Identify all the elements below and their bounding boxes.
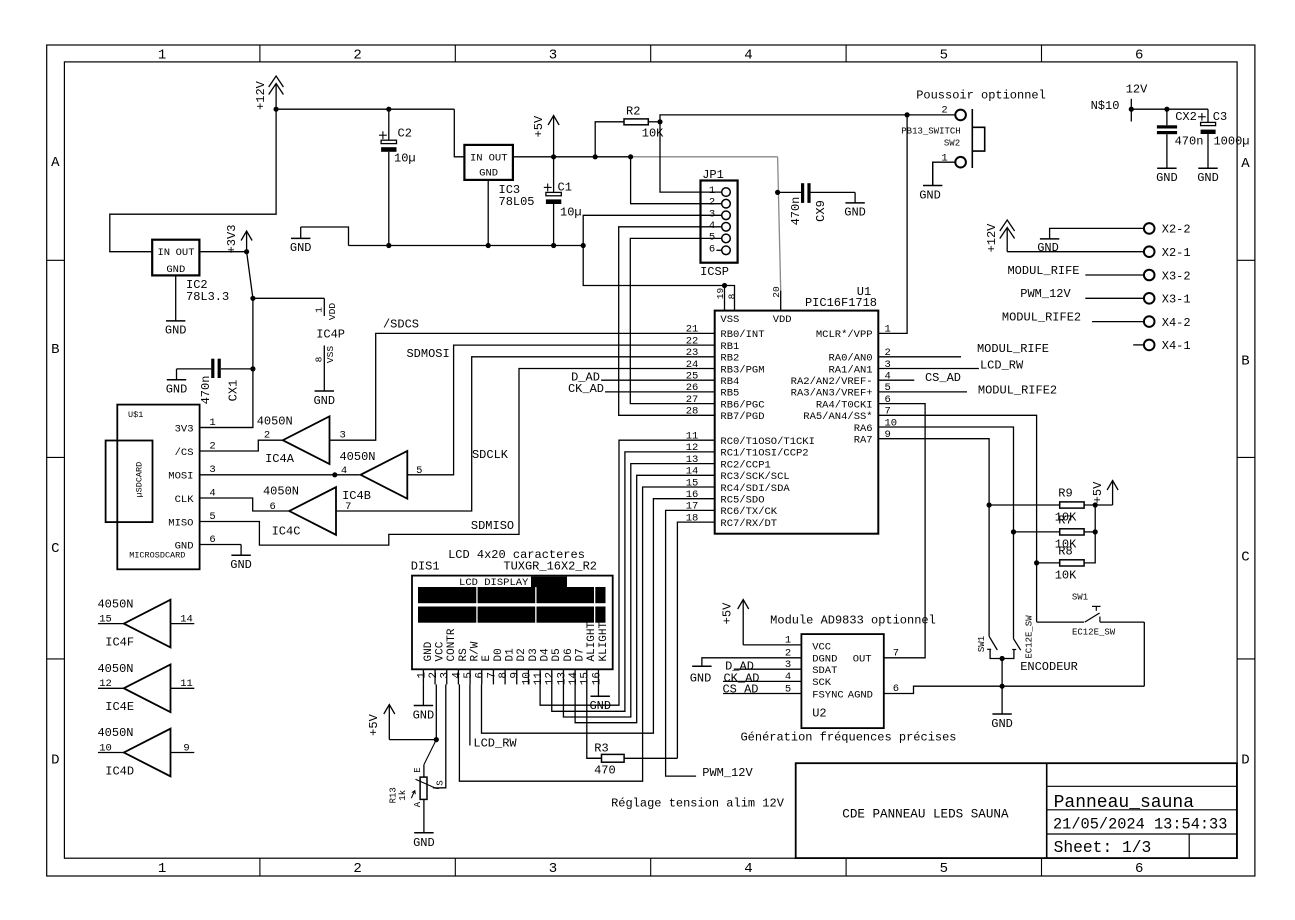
svg-text:10K: 10K bbox=[642, 127, 664, 141]
wire IC3 OUT to +5V rail bbox=[513, 156, 554, 158]
svg-text:D0: D0 bbox=[493, 648, 505, 661]
power symbol +12V (connectors) bbox=[985, 220, 1015, 252]
svg-text:2: 2 bbox=[941, 104, 947, 116]
connector X2-2 bbox=[1144, 223, 1191, 237]
switch SW1 EC12E push bbox=[1037, 592, 1145, 686]
svg-text:3: 3 bbox=[440, 672, 452, 679]
svg-text:X4-1: X4-1 bbox=[1162, 339, 1191, 353]
junction +12V tee bbox=[274, 107, 279, 112]
wire U2 AGND to encoder gnd bbox=[884, 686, 1145, 693]
wire X3-2 bbox=[1085, 274, 1144, 276]
wire X2-1 to +12V bbox=[1007, 251, 1144, 253]
svg-text:1k: 1k bbox=[398, 790, 408, 801]
svg-text:1: 1 bbox=[313, 307, 324, 313]
ground encoder bbox=[991, 686, 1013, 731]
svg-text:470n: 470n bbox=[789, 197, 803, 226]
svg-text:RA2/AN2/VREF-: RA2/AN2/VREF- bbox=[791, 376, 873, 388]
svg-text:D7: D7 bbox=[575, 648, 587, 661]
svg-text:GND: GND bbox=[313, 394, 335, 408]
svg-text:S: S bbox=[435, 780, 445, 785]
wire RC0 to LCD D4 bbox=[540, 440, 715, 705]
wire U$1 MISO to SDMISO bbox=[200, 369, 715, 546]
svg-text:13: 13 bbox=[556, 672, 568, 685]
svg-text:GND: GND bbox=[479, 168, 498, 180]
svg-text:SCK: SCK bbox=[812, 677, 832, 689]
svg-text:D3: D3 bbox=[528, 648, 540, 661]
svg-text:R/W: R/W bbox=[470, 641, 482, 661]
svg-text:ENCODEUR: ENCODEUR bbox=[1020, 660, 1078, 674]
svg-text:A: A bbox=[413, 801, 423, 807]
svg-text:VDD: VDD bbox=[327, 303, 338, 320]
buffer IC4C (4050N) bbox=[263, 485, 351, 539]
svg-text:2: 2 bbox=[353, 861, 361, 877]
label MODUL_RIFE2 (X4-2) bbox=[1002, 311, 1081, 325]
svg-text:MODUL_RIFE2: MODUL_RIFE2 bbox=[978, 384, 1057, 398]
wire RC3 to LCD D7 bbox=[575, 475, 715, 722]
wire R7 left bbox=[1014, 531, 1060, 533]
wire X4-2 bbox=[1092, 321, 1144, 323]
svg-text:B: B bbox=[51, 342, 59, 358]
svg-text:R9: R9 bbox=[1058, 487, 1072, 501]
svg-text:9: 9 bbox=[183, 742, 189, 754]
svg-text:IC4C: IC4C bbox=[272, 524, 301, 538]
regulator IC2 78L3.3 bbox=[152, 240, 229, 304]
mcu U1 RB pin names bbox=[686, 324, 765, 423]
svg-text:6: 6 bbox=[475, 672, 487, 679]
svg-text:RB5: RB5 bbox=[720, 388, 739, 400]
svg-text:PWM_12V: PWM_12V bbox=[1020, 287, 1071, 301]
wire RA3 bbox=[878, 391, 967, 393]
svg-text:PB13_SWITCH: PB13_SWITCH bbox=[901, 126, 960, 136]
junction C1 bottom bbox=[551, 243, 556, 248]
svg-text:LCD_RW: LCD_RW bbox=[980, 359, 1024, 373]
svg-text:RS: RS bbox=[458, 648, 470, 662]
wire +12V down-left to IC2 bbox=[110, 109, 276, 252]
junction +3V3 bbox=[244, 249, 249, 254]
svg-text:MODUL_RIFE: MODUL_RIFE bbox=[977, 342, 1049, 356]
svg-text:D4: D4 bbox=[540, 648, 552, 662]
connector X3-2 bbox=[1144, 269, 1191, 283]
svg-text:+12V: +12V bbox=[254, 80, 268, 110]
resistor R8 10K bbox=[1055, 545, 1084, 583]
ground R13 bbox=[413, 833, 435, 850]
ground LCD pin1 bbox=[413, 706, 435, 723]
svg-text:+12V: +12V bbox=[985, 223, 999, 253]
wire 12V stub bbox=[1130, 99, 1132, 122]
power pins IC4P bbox=[313, 298, 345, 363]
svg-text:20: 20 bbox=[771, 286, 782, 298]
svg-text:AGND: AGND bbox=[848, 689, 873, 701]
svg-text:RA0/AN0: RA0/AN0 bbox=[828, 353, 872, 365]
svg-text:IC4F: IC4F bbox=[105, 635, 134, 649]
svg-text:JP1: JP1 bbox=[702, 168, 724, 182]
svg-text:4050N: 4050N bbox=[97, 597, 133, 611]
label SDMISO bbox=[471, 519, 514, 533]
svg-text:2: 2 bbox=[264, 429, 270, 441]
svg-text:GND: GND bbox=[165, 324, 187, 338]
svg-text:X4-2: X4-2 bbox=[1162, 316, 1191, 330]
svg-text:2: 2 bbox=[428, 672, 440, 679]
ground U2 DGND bbox=[690, 666, 712, 685]
svg-text:12V: 12V bbox=[1126, 82, 1148, 96]
ground CX9 bbox=[844, 192, 866, 219]
svg-text:22: 22 bbox=[686, 335, 699, 347]
wire IC4A in from RB0 (/SDCS) bbox=[330, 333, 715, 440]
wire +12V rail bbox=[276, 108, 454, 110]
title text Panneau_sauna bbox=[1054, 793, 1195, 813]
capacitor C3 bbox=[1198, 109, 1250, 168]
svg-text:9: 9 bbox=[510, 672, 522, 679]
potentiometer R13 1k bbox=[389, 765, 446, 833]
resistor R7 10K bbox=[1055, 514, 1084, 552]
svg-text:MCLR*/VPP: MCLR*/VPP bbox=[816, 329, 873, 341]
label N$10 bbox=[1091, 99, 1120, 113]
svg-text:IC4P: IC4P bbox=[316, 328, 345, 342]
label /SDCS bbox=[383, 317, 419, 331]
svg-text:IC4A: IC4A bbox=[265, 452, 295, 466]
svg-text:U2: U2 bbox=[812, 707, 826, 721]
svg-text:µSDCARD: µSDCARD bbox=[134, 462, 144, 498]
wire JP1 pin1 bbox=[660, 122, 722, 192]
junction R9/RA7 bbox=[987, 502, 992, 507]
ground C3 bbox=[1197, 168, 1219, 185]
capacitor CX2 bbox=[1157, 109, 1204, 168]
svg-text:+5V: +5V bbox=[532, 115, 546, 137]
wire JP1 pin5 bbox=[630, 238, 721, 403]
wire U$1 MOSI to IC4B out bbox=[200, 474, 360, 476]
svg-text:RC2/CCP1: RC2/CCP1 bbox=[720, 459, 770, 471]
svg-text:RC0/T1OSO/T1CKI: RC0/T1OSO/T1CKI bbox=[720, 436, 815, 448]
title text CDE PANNEAU LEDS SAUNA bbox=[842, 808, 1009, 822]
svg-text:3: 3 bbox=[709, 208, 715, 220]
wire X2-2 to GND bbox=[1050, 228, 1144, 239]
wire gnd symbol to rail bbox=[301, 227, 349, 246]
connector U$1 microSD card bbox=[106, 405, 216, 570]
wire JP1 pin6 stub bbox=[716, 249, 721, 251]
ground CX2 bbox=[1156, 168, 1178, 185]
svg-text:RB4: RB4 bbox=[720, 376, 739, 388]
label MODUL_RIFE (X3-2) bbox=[1007, 264, 1079, 278]
svg-text:15: 15 bbox=[99, 613, 112, 625]
svg-text:+3V3: +3V3 bbox=[225, 225, 239, 254]
ground X2-2 bbox=[1037, 239, 1059, 255]
svg-text:D1: D1 bbox=[505, 648, 517, 662]
wire SW2 pin1 to GND bbox=[933, 162, 956, 185]
svg-text:MISO: MISO bbox=[168, 517, 193, 529]
svg-text:12: 12 bbox=[545, 672, 557, 685]
svg-text:SW1: SW1 bbox=[1072, 592, 1088, 602]
svg-text:1: 1 bbox=[158, 47, 166, 63]
wire IC4C in from RB2 (SDCLK) bbox=[336, 357, 715, 511]
junction ICSP GND rail bbox=[581, 243, 586, 248]
svg-text:5: 5 bbox=[940, 47, 948, 63]
svg-text:14: 14 bbox=[568, 672, 580, 686]
svg-text:R3: R3 bbox=[594, 742, 608, 756]
wire pullup join bbox=[1084, 505, 1095, 563]
svg-text:5: 5 bbox=[709, 231, 715, 243]
wire X4-1 stub bbox=[1133, 344, 1144, 346]
svg-text:DGND: DGND bbox=[812, 654, 837, 666]
wire U$1 3V3 bbox=[200, 427, 253, 429]
label PWM_12V (RC6) bbox=[702, 766, 753, 780]
junction N$10 bbox=[1129, 107, 1134, 112]
junction R7 right bbox=[1093, 529, 1098, 534]
svg-text:2: 2 bbox=[709, 197, 715, 209]
wire RA1 bbox=[878, 368, 979, 370]
svg-text:4050N: 4050N bbox=[97, 726, 133, 740]
wire RA0 bbox=[878, 356, 961, 358]
svg-text:SDMISO: SDMISO bbox=[471, 519, 514, 533]
svg-text:X3-2: X3-2 bbox=[1162, 269, 1191, 283]
svg-text:GND: GND bbox=[1037, 241, 1059, 255]
svg-text:11: 11 bbox=[180, 678, 193, 690]
svg-text:SW2: SW2 bbox=[944, 139, 960, 149]
svg-text:SDAT: SDAT bbox=[812, 665, 837, 677]
svg-text:27: 27 bbox=[686, 394, 699, 406]
power symbol +5V (U2) bbox=[720, 600, 801, 645]
svg-text:CONTR: CONTR bbox=[446, 628, 458, 661]
svg-text:+5V: +5V bbox=[367, 713, 381, 735]
ground IC2 bbox=[165, 275, 187, 337]
wire R9 right to +5V bbox=[1084, 504, 1113, 506]
svg-text:4: 4 bbox=[709, 220, 715, 232]
svg-text:4: 4 bbox=[744, 861, 752, 877]
svg-text:VSS: VSS bbox=[325, 346, 336, 363]
svg-text:N$10: N$10 bbox=[1091, 99, 1120, 113]
title block dividers bbox=[1047, 763, 1237, 858]
svg-text:GND: GND bbox=[413, 836, 435, 850]
svg-text:470n: 470n bbox=[1175, 135, 1204, 149]
wire ALIGHT to R3 bbox=[587, 684, 602, 758]
junction SW2 tee bbox=[905, 112, 910, 117]
wire U2 FSYNC bbox=[723, 693, 801, 695]
svg-text:GND: GND bbox=[1156, 171, 1178, 185]
label PWM_12V (X3-1) bbox=[1020, 287, 1071, 301]
wire IC2 OUT bbox=[199, 251, 246, 253]
mcu U1 RA pin names bbox=[791, 324, 897, 447]
junction IC3 GND on rail bbox=[486, 243, 491, 248]
svg-text:4: 4 bbox=[451, 672, 463, 679]
svg-text:7: 7 bbox=[486, 672, 498, 679]
svg-text:/SDCS: /SDCS bbox=[383, 317, 419, 331]
svg-text:10µ: 10µ bbox=[560, 205, 582, 219]
svg-text:/CS: /CS bbox=[175, 447, 194, 459]
label SDCLK bbox=[472, 448, 509, 462]
svg-text:78L3.3: 78L3.3 bbox=[186, 290, 229, 304]
svg-text:GND: GND bbox=[844, 206, 866, 220]
svg-text:GND: GND bbox=[413, 709, 435, 723]
svg-text:R2: R2 bbox=[626, 104, 640, 118]
connector X4-1 bbox=[1144, 339, 1191, 353]
svg-text:+5V: +5V bbox=[720, 602, 734, 624]
wire RB5 CK_AD bbox=[605, 391, 715, 393]
svg-text:12: 12 bbox=[99, 678, 112, 690]
junction R9 right tee bbox=[1093, 502, 1098, 507]
ground CX1 bbox=[166, 369, 188, 397]
svg-text:D5: D5 bbox=[551, 648, 563, 661]
wire U$1 CLK to IC4C out bbox=[200, 498, 289, 511]
junction JP1 pin2 on +5V rail bbox=[628, 154, 633, 159]
svg-text:X3-1: X3-1 bbox=[1162, 293, 1191, 307]
label LCD_RW (RA1) bbox=[980, 359, 1024, 373]
svg-text:KLIGHT: KLIGHT bbox=[598, 621, 610, 661]
svg-text:CX1: CX1 bbox=[226, 380, 240, 402]
svg-text:IN: IN bbox=[470, 152, 483, 164]
connector X4-2 bbox=[1144, 316, 1191, 330]
svg-text:C: C bbox=[1241, 550, 1249, 566]
svg-text:MODUL_RIFE2: MODUL_RIFE2 bbox=[1002, 311, 1081, 325]
svg-text:GND: GND bbox=[589, 699, 611, 713]
wire U2 SCK bbox=[723, 680, 801, 682]
junction CX2 bbox=[1164, 107, 1169, 112]
svg-text:Poussoir optionnel: Poussoir optionnel bbox=[916, 89, 1046, 103]
svg-text:X2-1: X2-1 bbox=[1162, 246, 1191, 260]
wire RA6 down bbox=[878, 427, 1013, 639]
svg-text:23: 23 bbox=[686, 347, 699, 359]
wire RC1 to LCD D5 bbox=[552, 452, 715, 711]
wire U$1 /CS to IC4A out bbox=[200, 440, 283, 451]
svg-text:RA6: RA6 bbox=[854, 423, 873, 435]
svg-text:5: 5 bbox=[463, 672, 475, 679]
buffer IC4A (4050N) bbox=[257, 414, 346, 466]
svg-text:RB0/INT: RB0/INT bbox=[720, 329, 764, 341]
svg-text:RB7/PGD: RB7/PGD bbox=[720, 411, 764, 423]
power symbol +12V bbox=[254, 76, 283, 110]
junction +5V at C1 bbox=[551, 154, 556, 159]
wire R7 right bbox=[1084, 531, 1095, 533]
svg-text:Module AD9833 optionnel: Module AD9833 optionnel bbox=[770, 614, 936, 628]
svg-text:10: 10 bbox=[99, 742, 112, 754]
svg-text:C2: C2 bbox=[398, 126, 412, 140]
svg-text:1: 1 bbox=[416, 672, 428, 679]
svg-text:RC4/SDI/SDA: RC4/SDI/SDA bbox=[720, 483, 790, 495]
wire U$1 GND bbox=[200, 544, 242, 546]
svg-text:RA7: RA7 bbox=[854, 434, 873, 446]
svg-text:1: 1 bbox=[158, 861, 166, 877]
svg-text:VCC: VCC bbox=[812, 641, 831, 653]
junction encoder common bbox=[1000, 656, 1005, 661]
svg-text:GND: GND bbox=[690, 671, 712, 685]
wire R9 left bbox=[989, 504, 1060, 506]
wire RC5 to LCD E bbox=[482, 499, 715, 734]
svg-text:A: A bbox=[1241, 156, 1250, 172]
svg-text:GND: GND bbox=[423, 641, 435, 661]
wire U2 DGND bbox=[702, 658, 802, 666]
label MODUL_RIFE2 (RA3) bbox=[978, 384, 1057, 398]
wire +5V rail gray bbox=[631, 156, 778, 158]
svg-text:3: 3 bbox=[549, 47, 557, 63]
wire VDD gray slant bbox=[778, 157, 781, 291]
display DIS1 pin stubs bbox=[416, 669, 603, 685]
wire RC4 to LCD RS bbox=[459, 487, 714, 781]
svg-text:SW1: SW1 bbox=[977, 636, 987, 652]
wire 3V3 vertical bbox=[200, 252, 253, 428]
svg-text:RC3/SCK/SCL: RC3/SCK/SCL bbox=[720, 471, 789, 483]
capacitor C1 bbox=[544, 157, 582, 246]
svg-text:D6: D6 bbox=[563, 648, 575, 661]
svg-text:FSYNC: FSYNC bbox=[812, 689, 844, 701]
wire LCD GND pin1 bbox=[422, 684, 424, 705]
svg-text:GND: GND bbox=[991, 717, 1013, 731]
svg-text:470: 470 bbox=[594, 764, 616, 778]
wire IC4B in from RB1 bbox=[407, 345, 714, 475]
svg-text:VSS: VSS bbox=[720, 314, 739, 326]
svg-text:X2-2: X2-2 bbox=[1162, 223, 1191, 237]
svg-text:GND: GND bbox=[230, 558, 252, 572]
junction R2 left on rail bbox=[593, 154, 598, 159]
ground U$1 bbox=[230, 545, 252, 573]
svg-text:19: 19 bbox=[715, 288, 726, 300]
connector X2-1 bbox=[1144, 246, 1191, 260]
svg-text:CX9: CX9 bbox=[814, 200, 828, 222]
mcu U1 RC pin names bbox=[686, 430, 815, 529]
power symbol +5V (encoder) bbox=[1091, 481, 1118, 506]
svg-text:RC6/TX/CK: RC6/TX/CK bbox=[720, 506, 777, 518]
svg-text:4050N: 4050N bbox=[97, 662, 133, 676]
svg-text:VDD: VDD bbox=[773, 314, 792, 326]
wire RC7 to R3 bbox=[677, 522, 714, 758]
svg-text:RC1/T1OSI/CCP2: RC1/T1OSI/CCP2 bbox=[720, 448, 808, 460]
svg-text:1: 1 bbox=[885, 324, 891, 336]
mcu U1 VSS pins 19/8 bbox=[715, 286, 738, 311]
junction R8/RA5 bbox=[1034, 560, 1039, 565]
svg-text:Réglage tension alim 12V: Réglage tension alim 12V bbox=[611, 796, 785, 810]
svg-text:6: 6 bbox=[709, 243, 715, 255]
wire +5V diag to pot bbox=[424, 740, 436, 765]
junction C2 bottom on rail bbox=[386, 243, 391, 248]
svg-text:OUT: OUT bbox=[176, 247, 195, 259]
capacitor CX1 bbox=[177, 359, 253, 405]
svg-text:6: 6 bbox=[269, 501, 275, 513]
svg-text:RB2: RB2 bbox=[720, 353, 739, 365]
svg-text:ALIGHT: ALIGHT bbox=[586, 621, 598, 661]
junction CX9 tee bbox=[775, 190, 780, 195]
svg-text:7: 7 bbox=[893, 647, 899, 659]
svg-text:16: 16 bbox=[591, 672, 603, 685]
buffer IC4F (4050N, unused) bbox=[97, 597, 194, 649]
svg-text:VCC: VCC bbox=[435, 641, 447, 661]
label CK_AD (U2) bbox=[723, 672, 759, 686]
encoder switches SW1 A/B bbox=[977, 615, 1034, 659]
svg-text:78L05: 78L05 bbox=[499, 195, 535, 209]
svg-text:8: 8 bbox=[726, 293, 737, 299]
buffer IC4B (4050N) bbox=[339, 450, 422, 503]
svg-text:B: B bbox=[1241, 354, 1249, 370]
svg-text:RB1: RB1 bbox=[720, 341, 739, 353]
svg-text:C3: C3 bbox=[1213, 110, 1227, 124]
wire JP1 pin2 to +5V bbox=[631, 157, 722, 204]
svg-text:1000µ: 1000µ bbox=[1213, 135, 1249, 149]
svg-text:4: 4 bbox=[744, 47, 752, 63]
wire GND rail bbox=[349, 245, 584, 247]
title text sheet bbox=[1054, 838, 1152, 857]
wire SW2 pin2 bbox=[907, 114, 955, 116]
svg-text:3: 3 bbox=[549, 861, 557, 877]
svg-text:D: D bbox=[1241, 753, 1249, 769]
title text date bbox=[1053, 816, 1227, 834]
svg-text:SDCLK: SDCLK bbox=[472, 448, 509, 462]
capacitor CX9 bbox=[778, 183, 856, 225]
svg-text:TUXGR_16X2_R2: TUXGR_16X2_R2 bbox=[503, 560, 597, 574]
svg-text:GND: GND bbox=[166, 383, 188, 397]
wire RC6 to PWM_12V bbox=[666, 510, 715, 776]
svg-text:E: E bbox=[481, 655, 493, 662]
svg-text:C: C bbox=[51, 541, 59, 557]
svg-text:OUT: OUT bbox=[853, 654, 872, 666]
wire JP1 pin4 bbox=[619, 227, 722, 415]
connector X3-1 bbox=[1144, 293, 1191, 307]
svg-text:IN: IN bbox=[158, 247, 171, 259]
